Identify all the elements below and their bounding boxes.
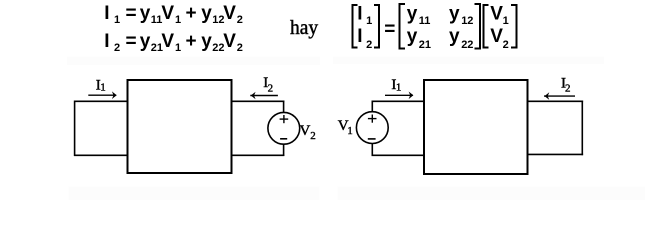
wire: stub from top wire to V2 source — [283, 101, 285, 113]
svg-text:y: y — [140, 3, 151, 24]
svg-text:2: 2 — [237, 42, 243, 54]
svg-text:I: I — [104, 31, 109, 52]
svg-text:=: = — [384, 19, 395, 40]
svg-text:1: 1 — [100, 81, 106, 93]
Y-matrix left bracket — [400, 4, 406, 49]
matrix I-vector left bracket — [353, 5, 358, 48]
wire: N2 output short right vertical — [581, 101, 583, 156]
wire: N2 output bottom — [528, 153, 584, 155]
svg-text:2: 2 — [237, 14, 243, 26]
svg-text:hay: hay — [290, 18, 318, 39]
svg-text:y: y — [201, 31, 212, 52]
svg-text:2: 2 — [366, 39, 372, 51]
svg-text:2: 2 — [114, 42, 120, 54]
svg-text:+: + — [186, 3, 197, 24]
svg-text:2: 2 — [268, 83, 274, 95]
svg-text:y: y — [449, 4, 460, 25]
svg-text:V: V — [300, 123, 311, 139]
svg-text:21: 21 — [419, 39, 431, 51]
current arrow I2 (left circuit) — [250, 95, 278, 97]
wire: N1 output bottom — [231, 154, 284, 156]
svg-text:I: I — [357, 4, 362, 25]
svg-text:1: 1 — [347, 125, 353, 137]
svg-text:2: 2 — [503, 39, 509, 51]
plus sign of V2 — [280, 118, 289, 120]
svg-text:y: y — [140, 31, 151, 52]
V-vector left bracket — [484, 5, 489, 48]
voltage source V1 — [356, 112, 388, 144]
svg-text:=: = — [126, 31, 137, 52]
svg-text:2: 2 — [565, 83, 571, 95]
wire: N1 input short top — [74, 100, 128, 102]
matrix I-vector right bracket — [374, 5, 379, 48]
wire: N2 input top — [372, 100, 425, 102]
svg-text:1: 1 — [114, 14, 120, 26]
svg-text:1: 1 — [175, 42, 181, 54]
svg-text:y: y — [449, 26, 460, 47]
wire: N1 input short left vertical — [74, 101, 76, 157]
svg-text:1: 1 — [366, 15, 372, 27]
wire: stub from V2 source to bottom wire — [283, 144, 285, 156]
Y-matrix right bracket — [475, 4, 481, 49]
current arrow I1 (left circuit) — [88, 94, 116, 96]
wire: stub from V1 top — [371, 101, 373, 113]
Y-matrix entries y11 y12 y21 y22 — [407, 4, 474, 51]
wire: N1 input short bottom — [74, 154, 128, 156]
scan background bands (decorative) — [67, 57, 320, 66]
svg-text:22: 22 — [461, 39, 473, 51]
wire: N2 input bottom — [372, 154, 425, 156]
plus sign of V1 — [368, 118, 377, 120]
equation line 1: I1 = y11 V1 + y12 V2 — [104, 3, 243, 26]
two-port network box N2 — [424, 80, 528, 174]
svg-text:V: V — [223, 31, 236, 52]
svg-text:V: V — [161, 31, 174, 52]
svg-text:I: I — [104, 3, 109, 24]
svg-text:2: 2 — [310, 130, 316, 142]
svg-text:1: 1 — [503, 15, 509, 27]
two-port network box N1 — [128, 80, 232, 173]
wire: N2 output top — [528, 100, 584, 102]
minus sign of V1 — [368, 138, 376, 140]
wire: stub from V1 bottom — [371, 143, 373, 156]
svg-text:y: y — [201, 3, 212, 24]
svg-text:1: 1 — [396, 81, 402, 93]
svg-text:y: y — [407, 4, 418, 25]
current arrow I2 (right circuit) — [544, 95, 575, 97]
V-vector entries V1 V2 — [490, 4, 509, 51]
svg-text:12: 12 — [461, 15, 473, 27]
svg-text:y: y — [407, 26, 418, 47]
equation line 2: I2 = y21 V1 + y22 V2 — [104, 31, 243, 54]
current arrow I1 (right circuit) — [385, 94, 413, 96]
svg-text:11: 11 — [419, 15, 431, 27]
svg-text:V: V — [490, 26, 503, 47]
minus sign of V2 — [280, 138, 287, 140]
matrix I-vector entries I1 I2 — [357, 4, 372, 51]
svg-text:=: = — [126, 3, 137, 24]
voltage source V2 — [268, 112, 300, 144]
svg-text:V: V — [161, 3, 174, 24]
wire: N1 output top — [231, 100, 284, 102]
svg-text:+: + — [186, 31, 197, 52]
svg-text:V: V — [490, 4, 503, 25]
svg-text:V: V — [223, 3, 236, 24]
svg-text:I: I — [357, 26, 362, 47]
V-vector right bracket — [511, 5, 517, 48]
svg-text:1: 1 — [175, 14, 181, 26]
